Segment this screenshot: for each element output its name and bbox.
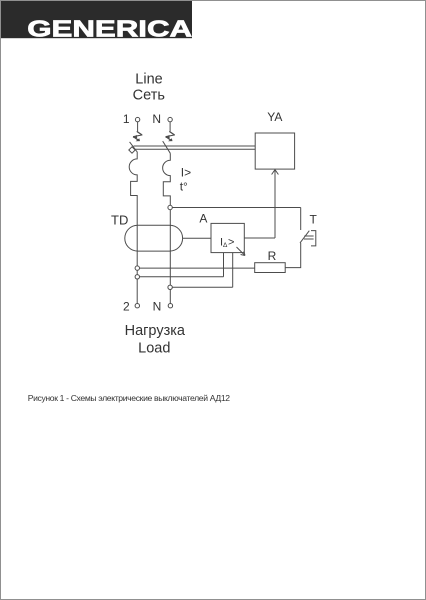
contact blade pole1: [130, 142, 137, 151]
wire A stub to N tap: [232, 253, 234, 288]
svg-text:Load: Load: [138, 341, 170, 357]
svg-text:>: >: [228, 237, 234, 249]
node N upper junction: [168, 205, 172, 209]
svg-text:I>: I>: [181, 165, 191, 179]
terminal 2 (bottom): [135, 304, 139, 308]
arrow at A box output corner: [237, 247, 246, 256]
node N tap: [168, 285, 172, 289]
wire R to test button: [285, 243, 301, 268]
test button T actuator linkage: [304, 236, 314, 239]
test button T cap: [311, 231, 316, 246]
wire pole1 top stub: [137, 122, 139, 132]
test button T wire upper: [300, 208, 302, 231]
wire A output: [244, 237, 275, 239]
terminal 1 (top): [135, 117, 139, 121]
svg-text:R: R: [268, 249, 277, 263]
wire N conductor with magnetic coil bump and thermal notch: [163, 153, 171, 303]
wire to YA with arrow: [272, 170, 279, 238]
wire TD to amplifier A: [183, 237, 211, 239]
node pole1 tap lower: [135, 275, 139, 279]
svg-text:Line: Line: [135, 72, 162, 88]
terminal N (bottom): [168, 304, 172, 308]
terminal N (top): [168, 117, 172, 121]
svg-text:N: N: [153, 299, 162, 313]
svg-text:YA: YA: [267, 110, 282, 124]
wire N top stub: [169, 122, 171, 132]
latch square on pole1 blade: [129, 147, 135, 153]
svg-text:A: A: [199, 212, 207, 226]
wire N tap to A: [172, 286, 232, 288]
svg-text:1: 1: [123, 112, 130, 126]
svg-text:Сеть: Сеть: [133, 88, 165, 104]
node pole1 tap upper: [135, 266, 139, 270]
release zigzag arrow pole1: [133, 131, 143, 141]
release zigzag arrow N: [165, 131, 175, 141]
mechanical link double line upper: [134, 145, 256, 147]
svg-text:t°: t°: [180, 180, 188, 194]
resistor R: [255, 263, 286, 273]
wire pole1 lower tap to A: [140, 276, 224, 278]
amplifier box A: [211, 223, 244, 252]
contact blade N: [163, 141, 171, 153]
wire pole1 tap to resistor R: [140, 267, 255, 269]
wire pole1 conductor with magnetic coil bump and thermal notch: [129, 151, 137, 304]
svg-text:N: N: [152, 112, 161, 126]
test button T blade: [300, 231, 309, 243]
wire A stub to pole1 tap: [223, 253, 225, 277]
svg-text:TD: TD: [111, 213, 128, 228]
solenoid box YA: [255, 133, 294, 169]
svg-text:Рисунок 1 - Схемы электрически: Рисунок 1 - Схемы электрические выключат…: [28, 393, 231, 403]
svg-text:GENERICA: GENERICA: [27, 15, 192, 41]
svg-text:T: T: [310, 212, 318, 226]
svg-text:2: 2: [123, 299, 130, 313]
svg-text:Нагрузка: Нагрузка: [125, 323, 186, 339]
wire N junction to test button: [172, 207, 300, 209]
logo GENERICA: [1, 1, 192, 42]
mechanical link double line lower: [135, 148, 255, 150]
current transformer TD oval: [125, 225, 183, 251]
